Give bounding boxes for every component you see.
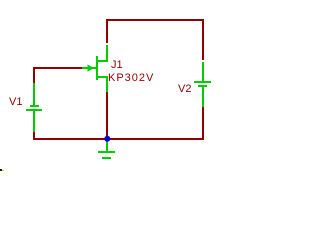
- battery V1 long plate: [26, 109, 42, 111]
- svg-text:V2: V2: [178, 83, 191, 95]
- ground stem: [106, 141, 108, 151]
- node junction dot: [104, 136, 110, 142]
- wire source to junction: [106, 92, 108, 138]
- wire right vertical upper: top rail to V2 plus: [202, 19, 204, 60]
- transistor J1 source pin lead: [106, 77, 108, 92]
- wire bottom: ground rail: [33, 138, 204, 140]
- battery V2 short plate: [198, 85, 207, 87]
- svg-text:KP302V: KP302V: [108, 72, 154, 84]
- battery V2 bottom lead: [202, 87, 204, 107]
- svg-text:J1: J1: [111, 59, 123, 71]
- ground bar short: [102, 157, 111, 159]
- wire left vertical lower: V1 minus to rail: [33, 131, 35, 140]
- transistor J1 drain horizontal: [97, 60, 108, 62]
- wire drain vertical: [106, 19, 108, 43]
- transistor J1 source horizontal: [97, 76, 108, 78]
- wire right vertical lower: V2 minus to ground rail: [202, 107, 204, 140]
- transistor J1 gate arrow: [88, 65, 95, 72]
- battery V1 top lead: [33, 83, 35, 105]
- transistor J1 drain pin lead: [106, 45, 108, 62]
- wire top: drain node to V2 plus: [106, 19, 204, 21]
- battery V2 top lead: [202, 62, 204, 81]
- battery V1 bottom lead: [33, 111, 35, 132]
- wire gate horizontal: [33, 67, 82, 69]
- ground bar long: [98, 151, 115, 153]
- battery V1 short plate: [30, 105, 39, 107]
- transistor J1 channel bar: [96, 56, 98, 80]
- wire left vertical upper: V1 plus to gate: [33, 67, 35, 85]
- corner speck: [0, 169, 2, 171]
- battery V2 long plate: [194, 81, 211, 83]
- transistor Q J1 gate lead: [82, 67, 96, 69]
- svg-text:V1: V1: [9, 96, 22, 108]
